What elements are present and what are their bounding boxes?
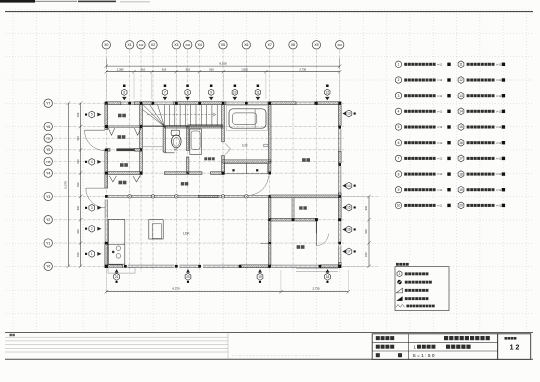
svg-text:9: 9 bbox=[210, 91, 212, 95]
exterior wall north Y7 bbox=[105, 102, 341, 105]
legend item 2 bbox=[395, 77, 450, 83]
axis circle X7 bbox=[266, 41, 274, 49]
title row koji meisho bbox=[376, 336, 490, 340]
svg-text:t=12: t=12 bbox=[496, 189, 502, 192]
svg-text:20: 20 bbox=[186, 275, 190, 279]
axis circle Y56 bbox=[44, 134, 52, 142]
marker 2 left bbox=[85, 225, 102, 232]
svg-text:X5: X5 bbox=[221, 43, 225, 47]
svg-text:t=12: t=12 bbox=[496, 142, 502, 145]
marker 18 bottom bbox=[325, 269, 331, 283]
key box title bbox=[396, 263, 409, 266]
svg-text:Y45: Y45 bbox=[46, 160, 51, 164]
washroom south wall Y4 bbox=[164, 172, 224, 175]
axis circle X8 bbox=[289, 41, 297, 49]
legend item 10 bbox=[395, 202, 450, 208]
svg-text:t=12: t=12 bbox=[496, 157, 502, 160]
svg-text:14: 14 bbox=[347, 184, 351, 188]
svg-text:910: 910 bbox=[76, 205, 80, 210]
svg-text:t=12: t=12 bbox=[496, 205, 502, 208]
svg-text:t=12: t=12 bbox=[437, 173, 443, 176]
svg-text:Y56: Y56 bbox=[46, 137, 51, 141]
marker 9 top bbox=[209, 85, 214, 101]
revision band bbox=[5, 332, 533, 359]
legend item 3 bbox=[395, 92, 450, 98]
wc washroom divider X34 bbox=[187, 127, 189, 174]
svg-text:2: 2 bbox=[398, 78, 400, 82]
title block frame bbox=[372, 334, 531, 360]
marker 1 left bbox=[85, 251, 102, 258]
key box frame bbox=[395, 267, 449, 311]
svg-text:17: 17 bbox=[347, 250, 351, 254]
hall door leaf at X12 bbox=[137, 175, 141, 182]
svg-text:910: 910 bbox=[76, 135, 80, 140]
east wall X7 south part LDK-washitsu bbox=[268, 195, 271, 267]
axis circle Y4 bbox=[44, 169, 52, 177]
legend item 7 bbox=[395, 155, 450, 161]
dimension line right 910s bbox=[343, 195, 371, 268]
towel bar bath bbox=[264, 144, 268, 147]
svg-text:7: 7 bbox=[164, 91, 166, 95]
marker 16 right bbox=[342, 226, 355, 233]
svg-text:18: 18 bbox=[326, 275, 330, 279]
svg-text:13: 13 bbox=[347, 112, 351, 116]
svg-text:910: 910 bbox=[76, 229, 80, 234]
marker 5 left bbox=[85, 111, 102, 118]
legend item 13 bbox=[458, 92, 505, 99]
dimension line total 6370 left bbox=[64, 102, 71, 269]
key row existing post bbox=[397, 280, 432, 284]
room label washitsu SE bbox=[297, 245, 305, 249]
room label hallway bbox=[181, 182, 188, 185]
wall Y4 west rooms with closet doors bbox=[105, 172, 142, 175]
axis circle Y5 bbox=[44, 146, 52, 154]
wall Y3 full with posts bbox=[106, 195, 269, 198]
svg-text:Y4: Y4 bbox=[46, 172, 50, 176]
axis circle X10 bbox=[336, 41, 344, 49]
axis circle Y6 bbox=[44, 122, 52, 130]
svg-text:t=12: t=12 bbox=[437, 79, 443, 82]
svg-text:X3: X3 bbox=[174, 43, 178, 47]
svg-text:11: 11 bbox=[459, 63, 463, 67]
fusuma door marks room1 bbox=[108, 128, 141, 135]
svg-text:18: 18 bbox=[459, 172, 463, 176]
svg-text:X10: X10 bbox=[337, 43, 342, 47]
marker 11 top bbox=[255, 85, 260, 101]
marker 6 top bbox=[122, 85, 127, 101]
marker 14 right bbox=[342, 182, 355, 189]
svg-text:4: 4 bbox=[398, 110, 400, 114]
exterior wall east X10 bbox=[338, 105, 341, 268]
genkan entry door arc bbox=[85, 130, 105, 150]
svg-text:7: 7 bbox=[398, 157, 400, 161]
svg-text:X7: X7 bbox=[268, 43, 272, 47]
legend item 19 bbox=[458, 186, 505, 193]
svg-text:Y1: Y1 bbox=[46, 241, 50, 245]
marker 21 bottom bbox=[114, 269, 120, 283]
svg-text:t=12: t=12 bbox=[437, 189, 443, 192]
svg-text:S = 1 : 5 0: S = 1 : 5 0 bbox=[413, 353, 435, 359]
stairs up line with arrow bbox=[147, 113, 216, 116]
kitchen island table bbox=[149, 220, 163, 239]
svg-text:910: 910 bbox=[76, 252, 80, 257]
room label east room bbox=[302, 158, 310, 162]
legend item 14 bbox=[458, 108, 505, 115]
exterior wall south Y0 bbox=[105, 265, 341, 268]
svg-text:X1: X1 bbox=[128, 43, 132, 47]
axis circle Y45 bbox=[44, 157, 52, 165]
svg-text:910: 910 bbox=[76, 182, 80, 187]
room label closet bbox=[299, 206, 307, 209]
axis circle X1 bbox=[125, 41, 133, 49]
bath east wall X7 bbox=[268, 105, 271, 175]
room label room W bbox=[119, 181, 127, 185]
vanity basin bbox=[190, 129, 202, 154]
marker 7 top bbox=[162, 85, 167, 101]
wall Y5 genkan south bbox=[108, 148, 141, 151]
marker 8 top bbox=[185, 85, 190, 101]
washitsu north wall Y2 bbox=[270, 218, 318, 221]
svg-text:6,370: 6,370 bbox=[64, 181, 68, 189]
svg-text:19: 19 bbox=[459, 188, 463, 192]
band memo text bbox=[10, 334, 15, 336]
washer counter cells bbox=[225, 164, 268, 174]
svg-text:17: 17 bbox=[459, 157, 463, 161]
room label genkan bbox=[118, 135, 126, 139]
title row scale bbox=[376, 353, 435, 359]
svg-text:t=12: t=12 bbox=[437, 63, 443, 66]
axis circle Y1 bbox=[44, 239, 52, 247]
terrace step south bbox=[296, 268, 338, 271]
svg-text:t=12: t=12 bbox=[437, 142, 443, 145]
axis circle X5 bbox=[219, 41, 227, 49]
dimension line segments left bbox=[76, 102, 83, 269]
title row zumen meisho bbox=[376, 344, 471, 349]
legend item 15 bbox=[458, 124, 505, 131]
svg-text:X8: X8 bbox=[291, 43, 295, 47]
wall under stair / wc top bbox=[164, 126, 223, 128]
svg-text:t=12: t=12 bbox=[437, 157, 443, 160]
stairs straight run risers bbox=[164, 105, 217, 127]
svg-text:t=12: t=12 bbox=[437, 110, 443, 113]
dimension line segments top bbox=[105, 67, 342, 99]
axis circle X34 bbox=[184, 41, 192, 49]
bathtub bbox=[226, 106, 267, 131]
svg-text:Y3: Y3 bbox=[46, 195, 50, 199]
axis circle Y3 bbox=[44, 192, 52, 200]
svg-text:X2: X2 bbox=[151, 43, 155, 47]
wc south partition bbox=[164, 152, 174, 154]
axis circle X6 bbox=[242, 41, 250, 49]
svg-text:Y0: Y0 bbox=[46, 265, 50, 269]
svg-text:9: 9 bbox=[398, 188, 400, 192]
stair bottom edge Y6 bbox=[141, 125, 223, 127]
svg-text:16: 16 bbox=[459, 141, 463, 145]
svg-text:t=12: t=12 bbox=[496, 173, 502, 176]
washitsu entry door X9 bbox=[316, 221, 328, 246]
marker 13 right bbox=[342, 110, 355, 117]
key row brace double bbox=[396, 296, 428, 301]
key row structural panel bbox=[396, 305, 405, 308]
key row hexagon marker bbox=[397, 271, 428, 277]
marker 19 bottom bbox=[257, 269, 263, 283]
svg-text:910: 910 bbox=[162, 67, 167, 71]
axis circle Y7 bbox=[44, 99, 52, 107]
svg-text:5: 5 bbox=[398, 125, 400, 129]
legend item 18 bbox=[458, 171, 505, 178]
svg-text:19: 19 bbox=[258, 275, 262, 279]
svg-text:1,820: 1,820 bbox=[241, 67, 248, 71]
svg-text:10: 10 bbox=[233, 91, 237, 95]
bath west wall X5 bbox=[222, 105, 225, 175]
room label washroom bbox=[204, 157, 214, 160]
legend item 12 bbox=[458, 77, 505, 84]
svg-text:1: 1 bbox=[91, 252, 93, 256]
fusuma door marks Y4 bbox=[109, 176, 139, 182]
entry step bbox=[108, 268, 135, 273]
dimension line bottom bbox=[105, 270, 350, 294]
legend item 16 bbox=[458, 139, 505, 146]
svg-text:15: 15 bbox=[347, 206, 351, 210]
marker 10 top bbox=[232, 85, 237, 101]
genkan step line bbox=[142, 146, 163, 148]
axis circle X9 bbox=[312, 41, 320, 49]
wc west wall X2.5 bbox=[163, 127, 165, 152]
svg-text:t=12: t=12 bbox=[496, 110, 502, 113]
closet north wall Y3 east bbox=[270, 195, 340, 198]
svg-text:910: 910 bbox=[209, 67, 214, 71]
svg-text:Y2: Y2 bbox=[46, 218, 50, 222]
svg-text:12: 12 bbox=[326, 91, 330, 95]
legend item 6 bbox=[395, 140, 450, 146]
svg-text:X4: X4 bbox=[198, 43, 202, 47]
marker 17 right bbox=[342, 248, 355, 255]
svg-text:t=12: t=12 bbox=[437, 95, 443, 98]
hall-east room door leaf and arc X7 bbox=[249, 176, 268, 196]
exterior wall west X0 bbox=[105, 103, 108, 268]
svg-text:8: 8 bbox=[187, 91, 189, 95]
svg-text:20: 20 bbox=[459, 204, 463, 208]
svg-text:t=12: t=12 bbox=[437, 126, 443, 129]
marker 3 left bbox=[85, 204, 102, 211]
svg-text:910: 910 bbox=[76, 112, 80, 117]
svg-text:2,730: 2,730 bbox=[313, 287, 320, 291]
svg-text:21: 21 bbox=[115, 275, 119, 279]
axis circle Y0 bbox=[44, 262, 52, 270]
svg-text:910: 910 bbox=[141, 67, 146, 71]
legend item 11 bbox=[458, 61, 505, 68]
svg-text:12: 12 bbox=[459, 78, 463, 82]
svg-text:t=12: t=12 bbox=[496, 95, 502, 98]
svg-text:X9: X9 bbox=[314, 43, 318, 47]
axis circle X2 bbox=[149, 41, 157, 49]
legend item 4 bbox=[395, 108, 450, 114]
axis circle Y2 bbox=[44, 216, 52, 224]
bath south wall Y45 bbox=[222, 160, 271, 163]
marker 20 bottom bbox=[185, 269, 191, 283]
axis circle X12 bbox=[137, 41, 145, 49]
svg-text:X12: X12 bbox=[139, 43, 144, 47]
svg-text:X34: X34 bbox=[185, 43, 190, 47]
svg-text:LDK: LDK bbox=[183, 231, 190, 235]
svg-text:X0: X0 bbox=[104, 43, 108, 47]
svg-text:6: 6 bbox=[398, 141, 400, 145]
room label washitsu NW bbox=[118, 114, 126, 118]
svg-text:910: 910 bbox=[364, 252, 368, 257]
marker 12 top bbox=[325, 85, 330, 101]
svg-text:16: 16 bbox=[347, 228, 351, 232]
legend item 5 bbox=[395, 124, 450, 130]
marker 4 left bbox=[85, 159, 102, 166]
counter edge kitchen bbox=[260, 243, 268, 245]
svg-text:Y7: Y7 bbox=[46, 102, 50, 106]
bath folding door bbox=[225, 143, 231, 154]
legend item 20 bbox=[458, 202, 505, 209]
svg-text:t=12: t=12 bbox=[496, 126, 502, 129]
axis circle X4 bbox=[196, 41, 204, 49]
svg-text:8: 8 bbox=[398, 172, 400, 176]
legend item 1 bbox=[395, 61, 450, 67]
dimension line total 9100 bbox=[105, 58, 342, 69]
room label storage W bbox=[120, 163, 128, 167]
svg-text:3: 3 bbox=[91, 206, 93, 210]
closet divider X8 bbox=[292, 198, 294, 219]
band faint note bbox=[232, 355, 320, 357]
stairs winder fan lines bbox=[142, 104, 164, 127]
svg-text:910: 910 bbox=[186, 67, 191, 71]
svg-text:U.B: U.B bbox=[242, 143, 247, 147]
axis circle X3 bbox=[172, 41, 180, 49]
svg-text:WC: WC bbox=[174, 147, 179, 151]
svg-text:5: 5 bbox=[91, 113, 93, 117]
axis circle X0 bbox=[102, 41, 110, 49]
svg-text:3: 3 bbox=[398, 94, 400, 98]
toilet bbox=[171, 130, 181, 148]
svg-text:Y5: Y5 bbox=[46, 148, 50, 152]
svg-text:1 2: 1 2 bbox=[510, 345, 520, 352]
svg-text:1,365: 1,365 bbox=[117, 67, 124, 71]
kitchen counter with stove bbox=[108, 219, 125, 264]
svg-text:6,370: 6,370 bbox=[173, 287, 180, 291]
svg-text:2,730: 2,730 bbox=[299, 67, 306, 71]
drawing number cell bbox=[505, 337, 520, 352]
svg-text:t=12: t=12 bbox=[496, 63, 502, 66]
svg-text:4: 4 bbox=[91, 160, 93, 164]
svg-text:2: 2 bbox=[91, 227, 93, 231]
svg-text:10: 10 bbox=[397, 204, 401, 208]
svg-text:910: 910 bbox=[76, 159, 80, 164]
svg-text:15: 15 bbox=[459, 125, 463, 129]
key row brace single bbox=[396, 288, 428, 293]
legend item 9 bbox=[395, 187, 450, 193]
svg-text:6: 6 bbox=[123, 91, 125, 95]
grid axis centerlines bbox=[54, 51, 378, 273]
svg-text:13: 13 bbox=[459, 94, 463, 98]
svg-text:9,100: 9,100 bbox=[219, 61, 227, 65]
svg-text:1: 1 bbox=[399, 272, 401, 276]
svg-text:Y6: Y6 bbox=[46, 125, 50, 129]
sliding door track Y6 rooms bbox=[105, 125, 223, 128]
svg-text:14: 14 bbox=[459, 110, 463, 114]
interior wall X12 rooms west column bbox=[140, 102, 143, 175]
legend item 17 bbox=[458, 155, 505, 162]
svg-text:X6: X6 bbox=[244, 43, 248, 47]
svg-text:1: 1 bbox=[398, 63, 400, 67]
svg-text:11: 11 bbox=[256, 91, 260, 95]
svg-text:910: 910 bbox=[364, 205, 368, 210]
svg-text:t=12: t=12 bbox=[496, 79, 502, 82]
marker 15 right bbox=[342, 204, 355, 211]
svg-text:910: 910 bbox=[364, 229, 368, 234]
legend item 8 bbox=[395, 171, 450, 177]
kitchen side door arc bbox=[86, 188, 106, 208]
svg-text:t=12: t=12 bbox=[437, 205, 443, 208]
